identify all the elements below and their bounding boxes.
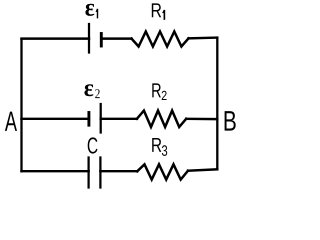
wire top branch left segment [22, 37, 90, 39]
resistor R3 zigzag [137, 164, 188, 179]
label EMF symbol E2 [84, 84, 99, 98]
wire C to R3 [100, 170, 137, 172]
wire E1 to R1 [101, 37, 131, 39]
wire R1 to node B [189, 36, 218, 39]
battery E2 short plate (negative) [87, 113, 90, 126]
wire R2 to node B [186, 118, 217, 121]
node A label [5, 112, 17, 131]
battery E1 long plate (positive) [88, 24, 90, 53]
label R1 [152, 3, 165, 19]
wire right vertical (node B rail) [216, 38, 218, 170]
battery E1 short plate (negative) [100, 34, 103, 47]
node B label [225, 111, 236, 131]
wire R3 to node B [188, 169, 217, 170]
resistor R2 zigzag [137, 111, 186, 127]
label R3 [152, 138, 167, 156]
resistor R1 zigzag [132, 32, 189, 47]
wire bottom branch left segment [22, 170, 89, 172]
wire middle branch from node A [22, 118, 89, 120]
wire left vertical (node A rail) [20, 39, 22, 172]
capacitor C left plate [87, 158, 89, 188]
label EMF symbol E1 [85, 4, 98, 19]
capacitor C right plate [99, 158, 101, 188]
wire E2 to R2 [101, 118, 137, 120]
label R2 [152, 83, 166, 100]
label C [88, 137, 98, 153]
battery E2 long plate (positive) [100, 104, 102, 133]
